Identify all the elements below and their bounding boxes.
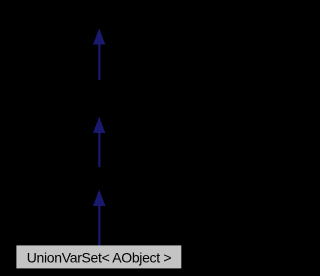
svg-text:UnionVarSet< AObject >: UnionVarSet< AObject > <box>27 250 172 266</box>
